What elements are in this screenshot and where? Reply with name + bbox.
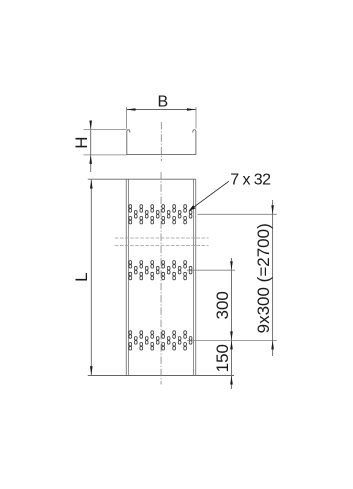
label 150 — [213, 344, 232, 372]
dimension B line — [127, 108, 197, 111]
joint dashed lines — [115, 238, 209, 245]
profile bottom — [127, 154, 196, 156]
svg-text:L: L — [72, 272, 91, 281]
slot band 3 — [129, 331, 192, 350]
svg-text:9x300 (=2700): 9x300 (=2700) — [254, 223, 273, 333]
svg-text:300: 300 — [213, 291, 232, 319]
label L — [72, 272, 91, 281]
dimension H line and arrows — [89, 121, 92, 173]
svg-text:B: B — [157, 93, 168, 110]
slot band 1 — [129, 205, 192, 224]
slot band 2 — [129, 261, 192, 280]
label H — [72, 136, 91, 148]
profile centreline — [160, 122, 162, 161]
extension line first slot row — [198, 213, 277, 215]
svg-text:7 x 32: 7 x 32 — [230, 171, 271, 188]
dimension B extension lines — [127, 107, 197, 129]
label 7 x 32 — [230, 171, 271, 188]
dimension H extension lines — [84, 130, 127, 155]
extension line last slot row — [187, 339, 277, 341]
label 9x300 (=2700) — [254, 223, 273, 333]
svg-text:H: H — [72, 136, 91, 148]
tray right rail — [194, 179, 196, 375]
svg-text:150: 150 — [213, 344, 232, 372]
label 300 — [213, 291, 232, 319]
tray top edge with L extension — [88, 178, 196, 180]
tray left rail — [126, 179, 128, 375]
extension line middle slot row — [187, 269, 235, 271]
label B — [157, 93, 168, 110]
profile left wall with hook — [127, 130, 130, 155]
dimension 300/150 line — [230, 258, 233, 389]
dimension 9x300 line and arrows — [271, 200, 274, 356]
tray bottom edge with extensions — [88, 375, 234, 377]
profile right wall with hook — [193, 130, 196, 155]
dimension L line and arrows — [90, 180, 93, 376]
tray centreline — [160, 172, 162, 385]
leader line 7 x 32 — [189, 181, 229, 211]
